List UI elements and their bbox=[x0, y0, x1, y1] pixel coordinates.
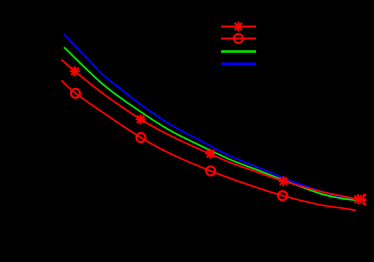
blue curve (series 4) bbox=[64, 35, 360, 201]
clipped final star marker at right axis edge bbox=[363, 194, 366, 204]
green curve (series 3) bbox=[64, 47, 359, 200]
legend entry 4: blue line bbox=[221, 63, 256, 66]
red curve with star markers (series 1) bbox=[61, 60, 366, 201]
legend entry 1: red line with star bbox=[221, 22, 256, 32]
legend entry 3: green line bbox=[221, 50, 256, 53]
circle markers on series 2 bbox=[71, 89, 287, 200]
red curve with circle markers (series 2) bbox=[61, 80, 356, 210]
star markers on series 1 bbox=[70, 66, 367, 204]
legend entry 2: red line with circle bbox=[221, 34, 256, 43]
